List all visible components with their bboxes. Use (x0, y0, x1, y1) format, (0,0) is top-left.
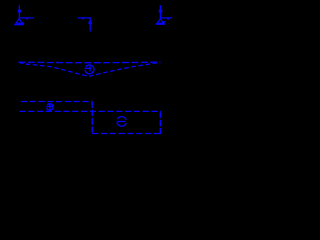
shear diagram negative bottom edge (dashed) (92, 133, 160, 135)
vertical arm B (89, 17, 91, 31)
shear diagram step (dashed vertical) (91, 102, 93, 134)
beam stub C (160, 17, 172, 19)
positive sign circle (moment diagram) (85, 65, 94, 74)
reaction arrow shaft C (159, 5, 161, 18)
shear diagram axis (dashed) (19, 110, 161, 112)
support C group (right pin support with reaction arrow) (156, 5, 173, 24)
section marker B (corner with arm and stud) (78, 17, 92, 31)
minus bar (117, 121, 126, 123)
ground line C (156, 23, 165, 25)
arrowhead A (18, 10, 22, 13)
blob on vertical B (89, 21, 92, 24)
pin support triangle C (157, 19, 163, 23)
tick on beam stub A (26, 18, 28, 19)
reaction arrow shaft A (18, 5, 20, 18)
support A group (left pin support with reaction arrow) (14, 5, 33, 24)
plus horizontal (85, 67, 91, 69)
moment diagram baseline (dashed) (19, 61, 161, 64)
negative sign circle (shear diagram) (117, 117, 127, 127)
arrow nub (52, 104, 54, 106)
plus vertical (49, 104, 51, 111)
arrow nub (92, 71, 94, 73)
plus horizontal (47, 105, 53, 107)
shear diagram right edge (dashed vertical) (159, 111, 161, 134)
ground line A (14, 24, 24, 26)
shear diagram positive top edge (dashed) (21, 101, 93, 103)
tick on arm B (82, 18, 84, 19)
arm left B (78, 17, 91, 19)
roller blob A (23, 22, 25, 24)
roller blob C (163, 21, 165, 23)
pin support triangle A (16, 19, 22, 23)
moment diagram curve (dashed triangle) (19, 62, 161, 76)
plus vertical (89, 65, 91, 72)
positive sign circle (shear diagram) (47, 104, 55, 111)
arrowhead C (159, 10, 163, 13)
tick on beam stub C (167, 18, 169, 19)
beam stub A (19, 17, 33, 19)
